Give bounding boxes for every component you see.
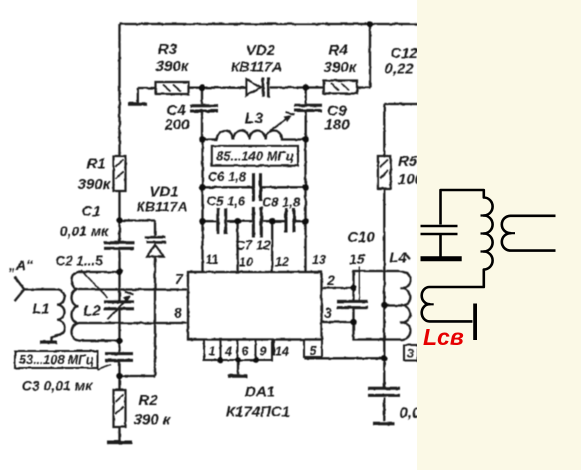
- svg-text:R1: R1: [86, 156, 105, 173]
- svg-text:L4: L4: [389, 250, 407, 267]
- svg-text:C12: C12: [390, 45, 418, 62]
- svg-text:L1: L1: [32, 301, 50, 318]
- svg-text:К174ПС1: К174ПС1: [226, 404, 290, 421]
- svg-text:53...108 МГц: 53...108 МГц: [19, 353, 94, 367]
- svg-text:390к: 390к: [156, 58, 190, 75]
- svg-text:C5 1,6: C5 1,6: [207, 194, 246, 209]
- svg-text:14: 14: [275, 345, 289, 359]
- svg-text:Lсв: Lсв: [423, 324, 464, 350]
- svg-text:VD2: VD2: [246, 42, 276, 59]
- svg-text:„А“: „А“: [8, 257, 33, 273]
- svg-text:9: 9: [260, 345, 267, 359]
- svg-text:R3: R3: [158, 41, 178, 58]
- svg-text:390 к: 390 к: [134, 412, 172, 429]
- svg-text:DA1: DA1: [245, 384, 275, 401]
- svg-text:C1: C1: [81, 203, 100, 220]
- svg-text:C7 12: C7 12: [236, 238, 271, 253]
- svg-text:C2 1...5: C2 1...5: [55, 254, 103, 269]
- svg-text:8: 8: [174, 305, 182, 321]
- svg-text:C3 0,01 мк: C3 0,01 мк: [22, 378, 93, 394]
- svg-text:85...140 МГц: 85...140 МГц: [216, 149, 294, 164]
- svg-text:L2: L2: [83, 303, 101, 320]
- svg-text:З: З: [407, 347, 415, 361]
- svg-text:12: 12: [275, 255, 289, 269]
- svg-text:11: 11: [206, 253, 219, 267]
- svg-text:10: 10: [239, 256, 253, 270]
- svg-text:R2: R2: [138, 392, 158, 409]
- svg-text:R5: R5: [398, 153, 418, 170]
- svg-text:C6 1,8: C6 1,8: [208, 169, 247, 184]
- svg-text:4: 4: [224, 345, 232, 359]
- svg-text:3: 3: [324, 305, 332, 321]
- svg-text:0,01 мк: 0,01 мк: [60, 223, 109, 239]
- svg-text:2: 2: [326, 272, 335, 288]
- svg-text:C8 1,8: C8 1,8: [262, 195, 301, 210]
- svg-text:0,22: 0,22: [384, 61, 414, 78]
- svg-text:C10: C10: [347, 229, 375, 246]
- svg-text:5: 5: [310, 344, 318, 358]
- svg-text:390к: 390к: [324, 59, 358, 76]
- svg-text:180: 180: [324, 117, 350, 134]
- svg-text:1: 1: [209, 345, 216, 359]
- svg-text:7: 7: [175, 271, 184, 287]
- svg-text:L3: L3: [245, 111, 264, 128]
- svg-text:R4: R4: [328, 42, 348, 59]
- svg-text:КВ117А: КВ117А: [136, 199, 187, 215]
- svg-text:200: 200: [163, 117, 190, 134]
- svg-text:390к: 390к: [78, 176, 112, 193]
- svg-text:КВ117А: КВ117А: [231, 59, 282, 75]
- svg-text:13: 13: [312, 253, 326, 267]
- svg-text:6: 6: [242, 345, 250, 359]
- svg-text:15: 15: [349, 251, 365, 267]
